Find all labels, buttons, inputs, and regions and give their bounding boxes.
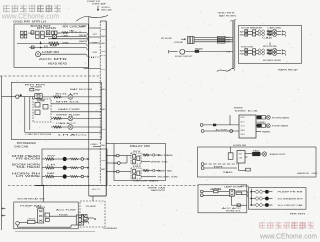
decor [3,5,61,13]
svg-text:MTR LH: MTR LH [32,19,46,23]
wire CN14 out 1 [84,217,88,219]
wire row2 [44,36,52,38]
svg-text:LH BREAKER: LH BREAKER [103,227,118,230]
pin tick y43.0 [88,42,100,44]
node F junction 2 [250,198,252,200]
svg-text:GND: GND [91,144,99,146]
resistor R9 [143,170,149,172]
svg-text:FUSE MAIN: FUSE MAIN [272,125,289,128]
wire SW3 b [256,49,259,51]
svg-text:BAT CAB: BAT CAB [102,9,113,12]
wire sender [185,51,233,53]
svg-text:LH WIRE: LH WIRE [16,176,41,178]
relay K9 [131,168,141,179]
svg-text:PUMP: PUMP [50,46,58,48]
wire row1 [57,32,62,34]
wire plug to connector [19,96,35,98]
lamp LC2 [272,32,276,36]
terminal ring 1 [116,154,119,157]
svg-text:FUSE CIRCUIT: FUSE CIRCUIT [175,56,193,58]
node F junction 1 [250,191,252,193]
module box: frame harness lamps [42,149,107,186]
svg-text:BAT HORN: BAT HORN [219,14,237,17]
svg-text:MAIN: MAIN [101,35,106,38]
fuse holder FH2 [21,35,24,38]
pin tick y146 [93,146,100,148]
wire row5 [41,53,87,55]
svg-text:GND: GND [101,51,106,53]
harness V2 wavy bottom break [217,68,235,71]
node F junction 3 [250,204,252,206]
wire stub to plug [2,96,16,98]
svg-text:MTR HEAD: MTR HEAD [12,155,41,158]
resistor RL3 [42,176,45,178]
relay K2 contact [52,35,56,38]
pin tick dashed [89,56,101,58]
terminal lugs [218,36,226,38]
svg-text:GND: GND [312,173,319,175]
diode D1b [262,116,266,119]
wire K feed 2 [201,167,204,170]
lamp L3 [68,125,73,130]
connector CN12 [229,190,234,197]
resistor RC4 [267,52,272,54]
svg-text:FUSE BAT: FUSE BAT [174,41,184,44]
wire ring3 to relay2 [119,171,131,173]
lamp LM2 [266,124,270,128]
terminal T3 [78,176,82,178]
wire fuse to relay [35,222,38,224]
svg-text:WORK SW: WORK SW [158,177,180,179]
svg-text:BOOM BREAKER: BOOM BREAKER [241,26,262,29]
diode D2b [262,124,266,127]
lamp LF2 [265,197,269,201]
connector strip J20 [232,21,234,69]
svg-text:RELAY: RELAY [79,34,88,37]
svg-text:HORN GND: HORN GND [263,60,282,62]
svg-text:WIRE: WIRE [63,42,70,44]
wire FL1 a [194,37,233,39]
wire SW2 out [277,33,281,35]
wire K drop [238,163,240,170]
wire SW3 out [277,49,281,51]
switch contact S0 [31,31,34,34]
fuse F2 [36,35,40,39]
resistor R6 [53,117,61,119]
connector strip J10 [99,21,101,183]
resistor RL1b [54,158,63,160]
svg-text:BREAKER: BREAKER [241,133,246,136]
resistor RL1 [42,158,45,160]
svg-text:MTR SOL: MTR SOL [56,102,82,104]
wire F bus [250,189,252,206]
wire lamp row 3 [88,176,90,178]
resistor RC2 [267,33,272,35]
svg-text:LAMP RR: LAMP RR [42,51,60,54]
resistor RC1 [267,30,272,32]
connector pair CN-C2 [258,33,261,36]
wire relay K9 out2 [141,176,156,178]
relay K5 box [33,99,51,122]
lamp LC1 [272,29,276,33]
svg-text:HEAD HEAD: HEAD HEAD [48,62,67,65]
node junction J-A3 [40,43,42,45]
battery plug P1 [36,52,41,57]
wire SW1 out [277,30,281,32]
svg-text:LAMP MTR: LAMP MTR [240,185,249,188]
plug P2 [16,95,19,98]
wire ring2 to relay [120,162,127,164]
fuse FL2 [28,220,36,223]
svg-text:HARN: HARN [79,40,88,43]
plug P6 [200,194,203,197]
wire F row 1 [269,191,273,193]
sensor SN1 [230,147,232,153]
lamp bulb B3 [63,174,67,178]
svg-text:MTR: MTR [113,171,117,173]
wire SW2 a [248,33,253,35]
breaker CB2 [253,33,256,36]
connector CN3 [35,94,42,99]
wire row3 [17,43,49,45]
svg-text:MTR BREAKER: MTR BREAKER [17,141,36,145]
terminal T9 [149,170,153,172]
pin tick y37.0 [88,36,100,38]
node stub junction [94,218,96,220]
wire SW4 b [256,52,259,54]
node harness junction [35,185,45,187]
svg-text:WIRE FUSE: WIRE FUSE [56,115,81,117]
fuse FG1 [236,192,242,195]
wire bus vertical 2 [29,97,31,130]
resistor RL2b [54,167,63,169]
svg-text:WIRE: WIRE [234,108,244,110]
svg-text:LAMP TAIL: LAMP TAIL [158,170,174,173]
wire row4 [29,47,86,49]
relay K8 [131,153,141,164]
wire harness vertical in box I [88,149,90,186]
lamp bulb B2 [63,166,67,170]
svg-text:HARN RELAY: HARN RELAY [278,69,299,72]
harness boundary dashed line lower [8,185,198,187]
node junction J-A4 [40,47,42,49]
terminal T2 [78,167,82,169]
wire row B3 [51,111,101,113]
wire K feed 1 [201,163,204,166]
svg-text:CIRCUIT: CIRCUIT [28,218,37,220]
wire P7 to fuse [19,222,27,224]
wire row B4 [51,117,53,119]
fuse F5 [30,88,34,91]
diode D2 [257,124,261,127]
connector CN15 in stub box [82,215,88,223]
wire row B2 [51,103,101,105]
wire SW4 out [277,52,281,54]
wire strip to ring3 [106,171,116,173]
svg-text:MAIN: MAIN [241,129,246,132]
fuse F1 [36,31,40,35]
connector pair CN-C4 [258,52,261,55]
diode D3 [253,152,261,156]
svg-text:CIRCUIT: CIRCUIT [93,34,98,36]
svg-text:ACC WORK: ACC WORK [216,128,229,131]
resistor RC3 [267,49,272,51]
svg-text:HARN MTR: HARN MTR [151,189,166,192]
plug P7 [16,222,20,226]
decor [259,222,314,229]
wire lamp LM1 [256,116,257,118]
lamp L1 [68,95,73,100]
wire lamp row 2 [88,167,90,169]
svg-text:RH GND: RH GND [37,28,57,30]
wire monitor stub down [229,115,231,125]
svg-text:WORK SOL: WORK SOL [226,211,242,213]
svg-text:HARN: HARN [213,187,222,190]
svg-text:GND MTR: GND MTR [218,12,236,14]
svg-text:RR: RR [30,33,35,35]
resistor RG2 [237,204,240,207]
plug P5 [200,190,203,193]
lamp LF3 [265,203,269,207]
svg-text:CAB CAB: CAB CAB [14,146,29,149]
wire SW1 a [248,30,253,32]
wire F row 2 [269,198,273,200]
wire lower loop [17,225,19,227]
wire relay K8 out2 [141,161,150,163]
svg-text:HORN RR: HORN RR [233,145,247,147]
svg-text:FR BOOM: FR BOOM [16,158,40,160]
svg-text:ACC: ACC [92,188,102,191]
plug mid-wire [230,130,233,133]
svg-text:BREAKER CIRCUIT: BREAKER CIRCUIT [270,153,287,156]
harness boundary dashed line upper [0,75,100,77]
svg-text:www.CEhome.com: www.CEhome.com [1,12,59,21]
svg-text:CAB ACC: CAB ACC [56,122,77,125]
svg-text:CAB: CAB [62,35,69,38]
diode D1 [257,116,261,119]
wire CN12 down [230,196,232,205]
tick group2 [269,43,271,46]
connector CN10 [239,115,256,138]
resistor RL2 [42,167,45,169]
svg-text:HEAD PUMP: HEAD PUMP [58,108,81,111]
svg-text:CIRCUIT: CIRCUIT [241,126,246,128]
connector pair CF3 [251,204,255,206]
svg-text:CIRCUIT BOOM: CIRCUIT BOOM [25,134,51,136]
terminal ring 2 [117,162,120,165]
svg-text:WORK HORN: WORK HORN [241,47,253,49]
wire P6 row [203,194,229,196]
module box: flasher relays [114,144,166,181]
svg-text:ACC TAIL: ACC TAIL [248,110,259,113]
harness trunk wavy break [76,15,108,21]
svg-text:SW: SW [47,156,55,158]
wire harness outer line [88,17,90,149]
svg-text:CAB: CAB [262,36,274,39]
module box: rear lamp group [248,188,306,210]
harness stub box dashed [80,201,105,227]
svg-text:BOOM RELAY SW: BOOM RELAY SW [18,198,46,201]
terminal T8 [149,154,153,156]
connector CN14 [76,215,84,225]
svg-text:RELAY: RELAY [241,116,246,119]
wire monitor feed 2 [201,130,204,133]
svg-text:RELAY RR: RELAY RR [130,144,150,148]
wire row B6 [25,132,102,134]
svg-text:FUSE: FUSE [59,214,69,216]
wire FL1 b [194,39,233,41]
harness V2 wavy top [230,20,236,22]
wire P5 row [203,191,213,193]
wire stub lower arrow 2 [2,215,6,217]
wire SW1 b [256,30,259,32]
wire SW2 b [256,33,259,35]
module box: switch panel [239,25,302,63]
svg-text:www.CEhome.com: www.CEhome.com [259,232,317,241]
resistor R1 heater coil [49,42,59,45]
lamp L2 [68,116,73,121]
breaker CB1 [253,30,256,33]
module box: starter circuit [14,202,79,229]
svg-text:HORN LAMP: HORN LAMP [92,3,107,6]
wire SW4 a [248,52,253,54]
svg-text:TAIL HEAD: TAIL HEAD [16,166,41,169]
switch S1 [31,46,34,49]
breaker CB4 [253,52,256,55]
wire relay to connector [50,215,77,217]
fuse F9 [195,50,199,52]
svg-text:WIRE SW: WIRE SW [151,162,170,164]
svg-text:HORN: HORN [113,163,117,165]
connector block J10 end [89,195,106,197]
svg-text:ACC FUSE: ACC FUSE [56,208,77,211]
svg-text:RELAY: RELAY [113,154,117,157]
wire row B5 [51,126,53,128]
wire harness tap [84,68,101,70]
fuel sender circuit [168,50,170,54]
wire CN12 out2 [242,194,247,196]
wire strip to ring2 [106,162,117,164]
wire lamp row 1 [88,158,90,160]
wire bus vertical 1 [24,97,26,133]
lamp bulb B1 [63,157,67,161]
lamp LC3 [272,48,276,52]
sender gauge G1 [180,49,185,54]
fusible link FL1 [188,37,195,44]
svg-text:GND: GND [101,160,106,162]
resistor R7 [53,126,61,128]
wire faint below box L [15,231,95,233]
wire left edge trunk [1,76,3,230]
lamp LC4 [272,51,276,55]
breaker CB3 [253,49,256,52]
node junction dot [20,94,22,96]
svg-text:ACC MTR: ACC MTR [39,58,68,61]
connector pair CF1 [251,191,255,193]
wire strip to ring1 [106,155,116,157]
svg-text:PUMP: PUMP [86,206,97,208]
terminal T1 [78,158,82,160]
svg-text:MTR WORK: MTR WORK [263,46,278,48]
wire ring1 to relay [119,155,131,157]
svg-text:HARN FR: HARN FR [297,172,310,175]
resistor RG1 [214,190,219,193]
wire to lower harness [92,196,94,201]
svg-text:CIRCUIT MAIN: CIRCUIT MAIN [133,179,159,182]
module box: cab harness [11,82,101,139]
svg-text:RR RH: RR RH [290,214,306,216]
svg-text:CAB GND: CAB GND [267,26,282,29]
svg-text:LH ACC: LH ACC [58,133,89,136]
svg-text:BAT BOOM: BAT BOOM [70,88,92,91]
fuse holder FH1 [21,31,24,34]
wire row B1 [42,96,53,98]
wire lamp LM2 [256,125,257,127]
connector CN11 [237,151,245,164]
module box: pump control [198,185,247,213]
svg-text:HEAD: HEAD [238,153,243,156]
wire CN14 out 2 [84,220,88,222]
starter relay K10 [38,209,44,223]
wire monitor feed 1 [200,124,203,127]
resistor R5 [53,96,61,98]
svg-text:HEAD: HEAD [195,47,204,50]
svg-text:WIRE: WIRE [226,42,231,44]
resistor RK1 [246,168,251,171]
wire drop to lower box [43,186,45,203]
connector pair CF2 [251,198,255,200]
svg-text:MTR: MTR [101,55,106,57]
wire monitor row3 [256,131,261,133]
wire SW3 a [248,49,253,51]
wire FL1 c [194,41,233,43]
lamp LM3 [262,152,266,156]
svg-text:ACC ACC: ACC ACC [222,207,242,210]
module box: front harness junction [14,24,88,67]
svg-text:RH: RH [101,29,106,31]
svg-text:MAIN: MAIN [240,33,245,36]
svg-text:SOL BREAKER MTR: SOL BREAKER MTR [278,197,303,200]
relay K1 contacts [52,31,54,35]
pin tick y28.0 [88,27,100,29]
svg-text:GND RR: GND RR [13,19,30,23]
svg-text:MAIN: MAIN [36,206,46,209]
resistor R8 [143,154,149,156]
svg-text:WORK: WORK [93,52,98,54]
svg-text:HEAD: HEAD [240,52,245,55]
svg-text:PUMP FR RR: PUMP FR RR [278,192,304,194]
module box: rear frame harness [198,147,317,177]
wire bus vertical 3 [31,97,33,99]
svg-text:MAIN: MAIN [37,98,45,101]
svg-text:HORN MAIN: HORN MAIN [272,116,290,119]
svg-text:FR WORK: FR WORK [161,38,173,40]
wire bus row [48,38,87,40]
lamp LF1 [265,190,269,194]
terminal ring 3 [116,170,119,173]
svg-text:HARN: HARN [262,130,271,133]
svg-text:TAIL: TAIL [253,149,261,152]
svg-text:TAIL BREAKER: TAIL BREAKER [235,110,246,113]
svg-text:TAIL: TAIL [69,30,76,33]
wire stub lower arrow 1 [2,208,6,210]
resistor RL3b [54,176,63,178]
svg-text:SOL CIRCUIT CAB: SOL CIRCUIT CAB [278,204,304,207]
wire F row 3 [269,204,273,206]
connector pair CN-C3 [258,49,261,52]
label to battery relay arrow [97,6,99,11]
connector pair CN-C1 [258,30,261,33]
